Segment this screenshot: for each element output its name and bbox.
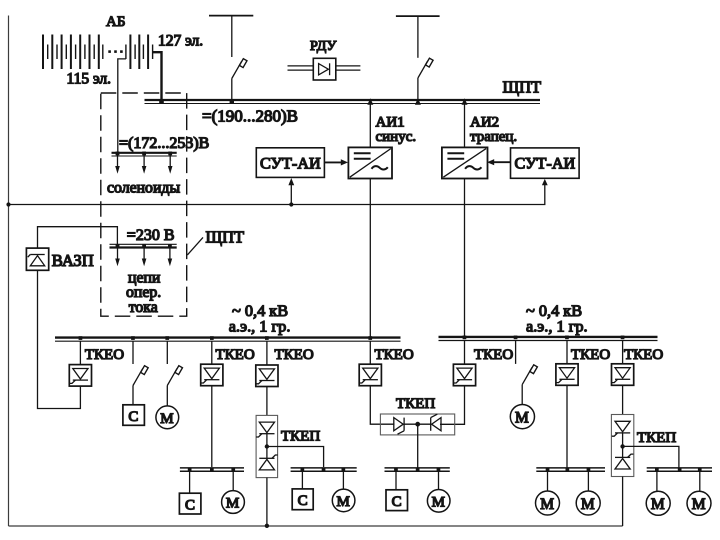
motor M1 (156, 406, 179, 429)
wire TKEO7 stub (622, 341, 624, 364)
wire TKEP left mid to subbus2 (267, 447, 324, 468)
thyristor unit TKEO1 (69, 365, 91, 387)
subbus 3 (385, 468, 450, 471)
node TKEP right mid (620, 444, 624, 448)
load arrow oper 1 (115, 244, 120, 266)
feed bar 1 (209, 15, 253, 17)
subbus 2 (291, 468, 357, 471)
thyristor unit TKEO2 (201, 364, 223, 386)
wire VAZP bottom to TKEO1 (38, 270, 81, 408)
wire VAZP top to 230V bus (38, 227, 118, 248)
wire feed2 lower (417, 78, 419, 101)
wire TKEP right bottom (622, 477, 624, 527)
svg-text:тока: тока (129, 299, 158, 316)
svg-text:М: М (226, 496, 239, 512)
wire TKEO3 stub (266, 341, 268, 365)
wire subbus2 to C (301, 471, 303, 489)
wire subbus1 to M (232, 471, 234, 490)
thyristor unit TKEO7 (612, 364, 634, 386)
wire TKEP left bottom (266, 478, 268, 526)
motor M8 (687, 491, 711, 515)
switch QS1 (232, 59, 247, 79)
node feed1 on bus (230, 99, 234, 103)
node arrow AI2 bus (462, 98, 468, 105)
thyristor unit TKEO5 (453, 364, 475, 386)
switch lower C (132, 341, 134, 364)
wire subbus4 to M6 (587, 471, 589, 491)
control line to SUT-AI units (9, 182, 545, 205)
motor M5 (536, 491, 560, 515)
switch lower M right (515, 341, 517, 364)
motor M3 (332, 489, 355, 512)
svg-text:трапец.: трапец. (470, 129, 517, 145)
svg-text:=(172...253)В: =(172...253)В (119, 135, 209, 152)
feed bar 2 (396, 15, 440, 17)
bus AC right (439, 337, 658, 341)
node TKEP left mid (265, 444, 269, 448)
svg-text:ТКЕО: ТКЕО (571, 347, 610, 363)
converter VAZP (26, 248, 48, 270)
motor M7 (646, 491, 670, 515)
wire TKEO2 stub (211, 341, 213, 364)
wire switch M right down (521, 385, 523, 405)
wire bottom return line (9, 525, 623, 527)
dashed box solenoid/oper circuits (101, 93, 187, 316)
label AI2 (470, 114, 517, 145)
wire AI1 top (369, 104, 371, 147)
wire TKEO7 down (622, 385, 624, 414)
svg-text:ТКЕО: ТКЕО (85, 347, 124, 363)
wire AI1 bottom to AC bus (369, 179, 371, 338)
wire TKEO5 down into TKEP (440, 386, 465, 425)
node dots AC right bus (463, 336, 625, 340)
svg-text:М: М (540, 496, 554, 513)
wire subbus2 to M (342, 471, 344, 489)
svg-text:=230 В: =230 В (127, 227, 175, 244)
svg-text:синус.: синус. (376, 129, 417, 145)
svg-text:ТКЕО: ТКЕО (275, 347, 314, 363)
svg-text:ЩПТ: ЩПТ (503, 78, 542, 97)
diode unit RDU (313, 58, 336, 80)
svg-text:127 эл.: 127 эл. (158, 32, 203, 49)
node TKEP horizontal mid (415, 422, 420, 427)
wire TKEO1 stub (79, 341, 81, 364)
svg-text:АБ: АБ (106, 14, 125, 30)
wire feed2 upper (417, 16, 419, 58)
load arrow solenoid 2 (142, 152, 147, 174)
svg-text:115 эл.: 115 эл. (67, 71, 112, 88)
wire switch C down (132, 386, 134, 405)
thyristor pair TKEP horizontal (380, 414, 454, 435)
battery AB plates (43, 35, 153, 70)
label 0,4 kV left (229, 301, 291, 335)
thyristor stack TKEP right (611, 415, 633, 477)
wire subbus5 to M8 (699, 471, 701, 491)
switch QS2 (418, 58, 433, 78)
wire switch M down (166, 386, 168, 407)
wire feed1 upper (231, 16, 233, 57)
wire TKEO6 down (566, 385, 568, 468)
wire control arrow right (542, 179, 548, 185)
wire TKEP horizontal mid down (417, 424, 419, 468)
bus solenoid (112, 153, 177, 156)
wire AI2 top (464, 104, 466, 147)
switch lower M (166, 341, 168, 364)
subbus 5 (647, 468, 712, 471)
wire TKEO4 stub (369, 341, 371, 364)
wire subbus3 to M (438, 471, 440, 489)
wire arrow SUT-AI to AI1 (324, 161, 342, 163)
node TKEP left bottom (265, 524, 269, 528)
svg-text:ТКЕО: ТКЕО (216, 347, 255, 363)
label ShchPT callout leader (187, 237, 203, 255)
load arrow oper 3 (168, 244, 173, 266)
svg-text:ТКЕО: ТКЕО (375, 347, 414, 363)
solenoid C box 3 (292, 489, 313, 510)
svg-text:РДУ: РДУ (310, 39, 336, 54)
node control line left end (6, 202, 10, 206)
wire AI2 bottom to AC bus (464, 179, 466, 337)
wire TKEP right mid to subbus5 (623, 446, 679, 468)
node arrow AI1 bus (367, 98, 373, 105)
wire arrow SUT-AI to AI2 (493, 161, 511, 163)
bus AC left (55, 338, 401, 342)
svg-text:ТКЕП: ТКЕП (396, 396, 435, 412)
load arrow solenoid 3 (168, 152, 173, 174)
subbus 1 (180, 468, 244, 471)
controller SUT-AI left (256, 148, 324, 178)
wire battery 115 tap (118, 59, 126, 153)
svg-text:М: М (651, 496, 665, 513)
bus oper current (110, 244, 177, 247)
wire TKEO4 down into TKEP (370, 386, 394, 424)
wire control arrow left (290, 183, 292, 205)
svg-text:С: С (392, 494, 402, 510)
solenoid C box 4 (386, 490, 408, 511)
wire TKEO5 stub (464, 341, 466, 365)
load arrow oper 2 (142, 244, 147, 266)
subbus 4 (536, 468, 605, 471)
svg-text:ВАЗП: ВАЗП (52, 251, 94, 270)
svg-text:М: М (581, 496, 595, 513)
svg-text:ЩПТ: ЩПТ (206, 228, 245, 247)
motor M2 (222, 491, 245, 514)
wire feed1 lower (231, 79, 233, 102)
thyristor unit TKEO4 (359, 364, 381, 386)
bus ShchPT main DC bus (145, 100, 541, 104)
motor M6 (576, 491, 600, 515)
wire battery 127 tap (153, 52, 162, 101)
solenoid C box 2 (179, 493, 201, 514)
wire RDU right pair (336, 66, 361, 70)
load arrow solenoid 1 (115, 152, 120, 174)
thyristor stack TKEP left (256, 415, 278, 477)
motor M4 (427, 490, 450, 513)
svg-text:М: М (692, 496, 706, 513)
inverter AI1 (348, 147, 392, 178)
svg-text:С: С (128, 409, 138, 425)
svg-text:соленоиды: соленоиды (107, 180, 180, 197)
label AI1 (376, 114, 417, 145)
wire TKEO2 down (211, 386, 213, 467)
node control branch left (289, 202, 293, 206)
thyristor unit TKEO6 (556, 364, 578, 386)
wire RDU left pair (288, 66, 314, 70)
wire subbus5 to M7 (656, 471, 658, 491)
label tsepi oper toka (126, 270, 161, 316)
svg-text:ТКЕП: ТКЕП (637, 430, 676, 446)
node dots AC left bus (79, 336, 373, 340)
node arrow feed2 bus (415, 98, 421, 105)
svg-text:М: М (515, 410, 529, 427)
svg-text:а.э., 1 гр.: а.э., 1 гр. (526, 317, 588, 336)
svg-text:СУТ-АИ: СУТ-АИ (515, 155, 576, 173)
thyristor unit TKEO3 (256, 365, 278, 387)
wire TKEO3 down (266, 387, 268, 416)
svg-text:М: М (432, 495, 445, 511)
svg-text:С: С (185, 497, 195, 513)
wire subbus4 to M5 (547, 471, 549, 491)
svg-text:С: С (298, 493, 308, 509)
svg-text:=(190...280)В: =(190...280)В (202, 107, 298, 126)
wire TKEO6 stub (566, 341, 568, 364)
wire subbus1 to C (189, 471, 191, 493)
solenoid C box 1 (123, 405, 144, 426)
svg-text:СУТ-АИ: СУТ-АИ (260, 155, 321, 173)
controller SUT-AI right (511, 148, 580, 178)
label 0,4 kV right (526, 301, 588, 335)
svg-text:ТКЕО: ТКЕО (624, 347, 663, 363)
svg-text:ТКЕО: ТКЕО (474, 347, 513, 363)
frame left border (8, 16, 10, 527)
svg-text:ТКЕП: ТКЕП (281, 429, 320, 445)
motor M right (510, 405, 534, 429)
svg-text:М: М (337, 494, 350, 510)
wire subbus3 to C (395, 471, 397, 490)
inverter AI2 (442, 147, 488, 178)
svg-text:М: М (160, 411, 173, 427)
node battery tap on bus (159, 99, 164, 104)
svg-text:а.э., 1 гр.: а.э., 1 гр. (229, 317, 291, 336)
